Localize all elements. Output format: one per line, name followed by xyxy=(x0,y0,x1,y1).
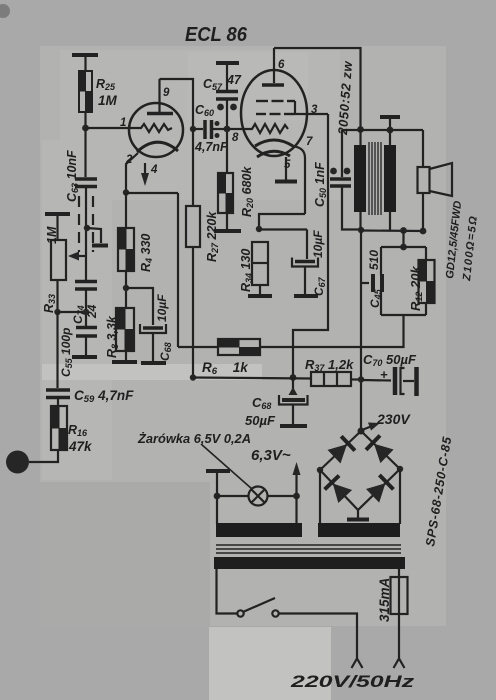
ground shield xyxy=(92,244,108,248)
speaker cone xyxy=(430,163,453,196)
resistor R4 330 xyxy=(118,228,134,271)
svg-text:10µF: 10µF xyxy=(311,230,325,258)
polarity arrow C68 xyxy=(289,387,298,395)
resistor R27 220k xyxy=(186,206,200,247)
wire pin5 lead xyxy=(285,157,287,180)
capacitor C67 cup xyxy=(292,258,318,267)
wire lamp winding leads xyxy=(217,496,297,524)
wire R34 node to C67 xyxy=(259,228,307,230)
terminal bar above secondary xyxy=(380,115,400,119)
light patch bottom left of mains area xyxy=(209,627,331,700)
speaker GD12.5/45 driver box xyxy=(418,167,430,193)
node triode cathode xyxy=(123,189,129,195)
svg-text:7: 7 xyxy=(306,136,313,148)
svg-text:24: 24 xyxy=(85,304,99,319)
pentode cathode arc pin 7 xyxy=(255,140,293,146)
svg-text:5: 5 xyxy=(284,159,291,171)
node dots beside C57 lead xyxy=(217,104,237,111)
wire R8 bottom xyxy=(125,351,127,360)
lighter central scan panel xyxy=(40,46,446,626)
wire C45 to B+ line xyxy=(361,282,369,284)
node bridge right xyxy=(397,466,403,472)
svg-text:50µF: 50µF xyxy=(245,413,276,428)
svg-text:Żarówka 6,5V 0,2A: Żarówka 6,5V 0,2A xyxy=(137,431,251,446)
wire R4 to R8 xyxy=(125,271,127,308)
resistor R12 20k xyxy=(419,260,435,303)
wire pot bottom lead xyxy=(56,280,58,312)
svg-text:+: + xyxy=(380,367,388,382)
capacitor C68 cup xyxy=(140,324,166,333)
capacitor C63 10nF xyxy=(75,179,97,187)
wire C67 bottom xyxy=(304,267,306,295)
wire switch to mains xyxy=(279,614,357,659)
wire primary bottom lead xyxy=(359,212,361,230)
wire down to C63 xyxy=(84,128,86,177)
light patch around C57/tubes xyxy=(60,50,340,200)
capacitor C59 4.7nF xyxy=(46,390,70,398)
output transformer secondary winding xyxy=(384,145,396,212)
power transformer HV winding xyxy=(318,523,400,537)
ground bridge xyxy=(347,518,369,522)
resistor R8 3.3k xyxy=(116,308,134,351)
svg-text:R20 680k: R20 680k xyxy=(240,166,255,217)
svg-text:230V: 230V xyxy=(376,411,411,427)
wire cathode run to R34 xyxy=(259,214,305,229)
output transformer core xyxy=(369,142,381,215)
svg-text:ECL 86: ECL 86 xyxy=(185,24,248,46)
capacitor C70 cup xyxy=(401,368,405,394)
capacitor C45 510 xyxy=(373,274,382,292)
pentode V1b envelope xyxy=(241,70,307,156)
node anode/C60/R27 xyxy=(190,126,196,132)
wire bridge bottom lead xyxy=(357,510,359,519)
corner smudge top-left xyxy=(0,4,10,18)
wire R33 node down to C59 xyxy=(56,312,58,388)
pentode g2 dashes xyxy=(256,113,295,115)
diode D4 lower-right xyxy=(366,475,393,503)
darker bottom-left quadrant xyxy=(40,482,210,626)
wire bridge edge LL xyxy=(320,470,358,510)
pentode anode bar pin 6 xyxy=(262,83,284,87)
wire loop left wall lower xyxy=(380,291,382,315)
node R37/C70/B+ xyxy=(358,376,364,382)
wire loop left wall upper xyxy=(380,247,382,275)
triode anode bar pin 9 xyxy=(147,112,173,116)
svg-text:220V/50Hz: 220V/50Hz xyxy=(289,673,415,691)
ground R34 xyxy=(248,294,272,298)
node secondary top xyxy=(387,127,394,134)
wire C70 left lead xyxy=(361,379,391,382)
node lamp left xyxy=(214,493,221,500)
wire B+ down line xyxy=(360,230,362,428)
ground C68 50uF xyxy=(280,424,307,428)
triode cathode arc pin 2 xyxy=(137,142,178,152)
wire C55 bottom xyxy=(85,337,87,355)
node R27 rail xyxy=(190,374,196,380)
wire bridge edge UR xyxy=(361,431,400,469)
svg-text:8: 8 xyxy=(232,132,239,144)
wire R34 bottom xyxy=(259,285,261,294)
power transformer Tr1 heater winding xyxy=(216,523,302,537)
node C57/R20 on grid wire xyxy=(224,126,231,133)
diode D2 upper-right xyxy=(366,436,394,464)
svg-text:2: 2 xyxy=(125,154,133,166)
ground C70 xyxy=(414,367,419,396)
resistor R16 47k xyxy=(51,406,67,450)
wire bottom run to speaker xyxy=(361,229,423,232)
node bridge left xyxy=(317,467,323,473)
ground bar lamp xyxy=(206,469,230,473)
ground pin5 xyxy=(275,180,297,184)
node C74/C55 xyxy=(83,309,89,315)
wire anode loop to C60 node xyxy=(160,79,194,129)
svg-text:9: 9 xyxy=(163,87,170,99)
wire anode lead up xyxy=(158,79,160,112)
wire to lamp xyxy=(217,495,249,497)
svg-text:1M: 1M xyxy=(45,226,59,244)
ground bar above C57 xyxy=(216,61,239,65)
power transformer core xyxy=(216,545,401,553)
node loop top xyxy=(400,244,407,251)
dots beside C50 lead xyxy=(330,168,350,175)
wire cathode down to R4 xyxy=(125,193,127,228)
node screen rail xyxy=(290,374,297,381)
wire R37 right lead xyxy=(351,378,361,380)
svg-text:6,3V~: 6,3V~ xyxy=(251,447,291,464)
capacitor C67 10uF plate xyxy=(295,260,315,264)
heater arrow pin 4 xyxy=(141,163,149,186)
resistor R25 1M xyxy=(79,71,92,112)
wire secondary top lead xyxy=(389,130,391,146)
capacitor C57 47 xyxy=(216,92,238,100)
output transformer Tr2 primary winding xyxy=(354,145,366,212)
wire wiper node down to C74 xyxy=(85,256,87,280)
wire secondary bottom lead xyxy=(389,212,391,231)
potentiometer R33 1M body xyxy=(51,240,66,280)
node heater xyxy=(293,493,300,500)
wire pot top lead xyxy=(56,214,58,240)
wire C57 bottom to R20 xyxy=(226,100,228,173)
node R4/R8/C68 xyxy=(123,285,129,291)
wire C74 bottom xyxy=(85,290,87,326)
svg-text:1: 1 xyxy=(120,117,126,129)
wire primary top lead xyxy=(359,130,361,146)
wire C50 top lead xyxy=(341,130,343,177)
wire R25 top lead xyxy=(84,55,86,71)
wire screen pin 3 out xyxy=(295,113,328,115)
ground R20 xyxy=(214,229,241,233)
wire feedback loop bottom xyxy=(381,314,426,316)
wire speaker bottom lead xyxy=(422,193,424,231)
wiper arrow into pot R33 xyxy=(68,252,86,261)
ground bar above R25 xyxy=(72,53,98,57)
svg-text:47: 47 xyxy=(226,73,242,87)
pentode beam arc pin 5 xyxy=(257,151,290,157)
fuse 315mA xyxy=(391,577,408,614)
svg-text:R8 3,3k: R8 3,3k xyxy=(105,315,120,358)
capacitor C74 24 xyxy=(75,282,97,290)
input terminal node xyxy=(6,451,29,474)
wire screen drop xyxy=(293,114,328,377)
capacitor C68 50uF plate xyxy=(282,398,305,402)
wire primary left to switch xyxy=(217,569,238,614)
resistor R6 1k xyxy=(218,339,260,355)
wire C68 bottom xyxy=(152,333,154,361)
wire loop to R6 line xyxy=(260,315,404,347)
node B+ xyxy=(358,227,364,233)
wire anode lead up xyxy=(273,48,275,83)
svg-text:3: 3 xyxy=(311,104,318,116)
svg-text:R12 20k: R12 20k xyxy=(408,266,424,311)
wire R20 bottom xyxy=(226,213,228,229)
svg-text:1M: 1M xyxy=(98,93,118,108)
wire bridge edge LR xyxy=(358,469,400,510)
pentode g1 zigzag pin 8 xyxy=(246,124,288,133)
capacitor C68 10uF plate xyxy=(143,326,163,330)
lamp Zarowka 6.5V 0.2A xyxy=(249,487,268,506)
switch W1 xyxy=(237,598,278,617)
svg-text:R34 130: R34 130 xyxy=(239,249,254,292)
svg-text:C63 10nF: C63 10nF xyxy=(65,150,80,202)
wire lamp ground lead xyxy=(216,471,218,496)
wire terminal to top wire xyxy=(389,117,391,130)
wire C57 top lead xyxy=(226,63,228,90)
capacitor C70 50uF plate xyxy=(393,367,398,395)
svg-text:C50 1nF: C50 1nF xyxy=(313,162,328,207)
node R33 bottom xyxy=(54,309,60,315)
arrow 6.3V heater xyxy=(293,462,301,495)
wire C59 to R16 xyxy=(57,399,59,406)
capacitor C55 100p xyxy=(76,328,97,337)
wire loop right wall upper xyxy=(425,247,427,260)
leader line zarowka xyxy=(201,444,252,489)
wire R25 bottom lead xyxy=(84,112,86,128)
wire loop right wall lower xyxy=(425,303,427,315)
node loop tap xyxy=(400,227,407,234)
wire cathode to junction xyxy=(126,153,138,192)
power transformer primary winding xyxy=(214,557,405,569)
pentode g3 dashes xyxy=(256,100,295,102)
wire C68 50uF bottom xyxy=(292,405,294,425)
resistor R34 130 xyxy=(252,242,268,285)
wire feedback loop top xyxy=(381,246,426,248)
wire node to C68 xyxy=(126,288,153,325)
wire shield drain xyxy=(87,228,101,243)
diode D1 upper-left xyxy=(328,436,355,463)
terminal mains left xyxy=(352,659,363,669)
resistor R20 680k xyxy=(218,173,233,213)
wire bridge right AC lead xyxy=(399,469,401,524)
terminal mains right xyxy=(394,659,405,669)
wire speaker top lead xyxy=(422,130,424,167)
svg-text:R4 330: R4 330 xyxy=(139,234,154,272)
svg-text:315mA: 315mA xyxy=(377,578,392,622)
wire R6 left lead xyxy=(178,346,218,348)
wire loop tap lead xyxy=(402,231,404,248)
wire fuse to mains xyxy=(398,614,400,658)
wire C70 right lead xyxy=(403,380,414,382)
wire R16 bottom to input xyxy=(29,450,58,462)
ground C55 xyxy=(72,355,97,359)
svg-text:C55 100p: C55 100p xyxy=(59,328,74,377)
svg-text:C59 4,7nF: C59 4,7nF xyxy=(74,388,134,405)
svg-text:R37 1,2k: R37 1,2k xyxy=(305,357,354,373)
wire C50 bottom to B+ node xyxy=(342,187,361,230)
resistor R37 1.2k xyxy=(311,372,351,386)
wire R27 top lead xyxy=(192,129,194,206)
light band through C59 row xyxy=(42,364,262,380)
wire C67 top lead xyxy=(306,230,308,260)
node grid junction xyxy=(82,125,89,132)
wire bridge edge UL xyxy=(320,431,361,470)
node bridge plus xyxy=(358,428,365,435)
shield dashes xyxy=(79,196,93,252)
wire C68 50uF lead xyxy=(292,378,294,395)
wire top run C50 to speaker xyxy=(342,129,423,131)
dots beside C60 xyxy=(215,121,220,138)
diode D3 lower-left xyxy=(325,476,353,503)
svg-text:C70 50µF: C70 50µF xyxy=(363,352,417,368)
shield junction xyxy=(84,225,90,231)
capacitor C60 4.7nF xyxy=(205,120,212,139)
svg-text:4: 4 xyxy=(150,164,158,176)
shielded wire from C63 to pot wiper xyxy=(85,188,87,256)
svg-text:10µF: 10µF xyxy=(155,294,169,322)
triode grid zigzag pin 1 xyxy=(131,124,172,132)
wire g3-g2 tie xyxy=(294,101,296,114)
wire R27 bottom to rail xyxy=(192,247,194,377)
ground C68 xyxy=(141,361,166,365)
ground R8 xyxy=(112,360,137,364)
wire cathode to feedback line xyxy=(126,192,178,194)
light left strip xyxy=(42,140,112,480)
wire node to C74/C55 column xyxy=(58,311,87,313)
wire bridge left AC lead xyxy=(319,470,321,524)
svg-text:510: 510 xyxy=(367,250,381,270)
capacitor C68 50uF cup xyxy=(279,395,308,405)
wire C60 to pentode grid pin 8 xyxy=(213,128,246,130)
wire fuse top lead xyxy=(398,569,400,577)
wire C60 left lead xyxy=(193,128,203,130)
node speaker bottom xyxy=(420,228,427,235)
wire cathode pin7 out xyxy=(292,146,305,214)
wire ground rail xyxy=(193,378,311,379)
wire anode top run to transformer xyxy=(274,48,361,129)
ground C67 xyxy=(294,294,318,298)
svg-text:R27 220k: R27 220k xyxy=(205,211,220,262)
node primary top xyxy=(357,126,364,133)
arrow to 230V xyxy=(362,423,380,431)
node cathode/R34 xyxy=(256,226,262,232)
capacitor C50 1nF xyxy=(330,179,351,186)
wire to triode grid pin 1 xyxy=(86,127,132,129)
ground bar above pot xyxy=(45,212,70,216)
svg-text:6: 6 xyxy=(278,59,285,71)
wire feedback vertical xyxy=(177,193,179,347)
triode V1a envelope xyxy=(129,103,183,157)
svg-text:4,7nF: 4,7nF xyxy=(194,140,228,154)
svg-text:47k: 47k xyxy=(68,439,93,454)
wire lamp to heater node xyxy=(268,495,297,497)
